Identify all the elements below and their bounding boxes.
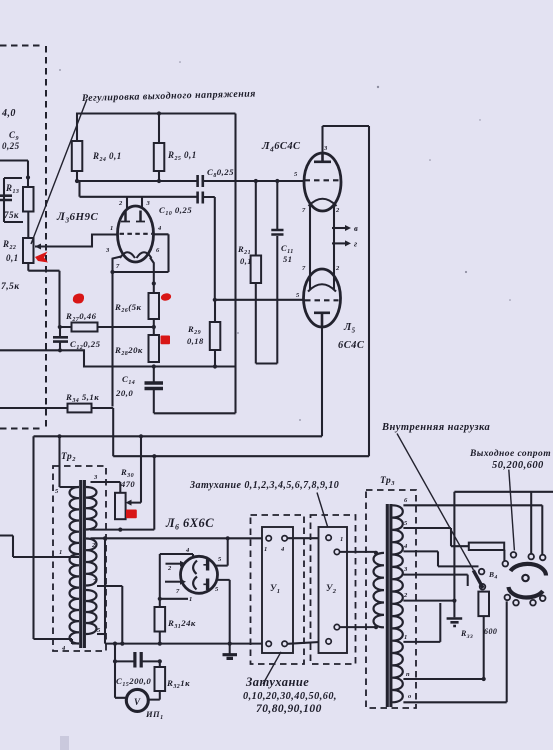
wire Tr2 section B bottom tap (pin 7) xyxy=(97,586,122,644)
meter IP1 xyxy=(126,689,148,711)
capacitor C15 plates (electrolytic 200,0) xyxy=(135,652,141,668)
wire L6 right bottom lead to ground bus xyxy=(217,580,230,644)
svg-text:0,18: 0,18 xyxy=(187,336,204,346)
resistor R34 body (horizontal 5,1k) xyxy=(68,404,92,413)
svg-text:2: 2 xyxy=(167,565,172,572)
resistor R28 body xyxy=(149,335,160,362)
svg-text:5: 5 xyxy=(215,586,219,593)
resistor internal load body xyxy=(469,543,504,550)
svg-text:R25 0,1: R25 0,1 xyxy=(167,150,197,162)
tube L6 envelope xyxy=(181,556,218,593)
svg-text:5: 5 xyxy=(218,556,222,563)
svg-text:Затухание 0,1,2,3,4,5,6,7,8,9,: Затухание 0,1,2,3,4,5,6,7,8,9,10 xyxy=(189,480,339,491)
terminal U2 mid-right top xyxy=(334,549,339,554)
wire Tr2 primary mid tap, pin 1 xyxy=(0,536,79,558)
svg-text:R13: R13 xyxy=(5,183,19,195)
svg-text:в: в xyxy=(354,223,358,233)
terminal U1 top-left xyxy=(266,536,271,541)
terminal U1 top-right xyxy=(282,536,287,541)
wire under-tube horizontal xyxy=(113,271,169,273)
tube L5 grid dashed xyxy=(305,299,339,301)
svg-text:5: 5 xyxy=(97,627,101,634)
svg-text:20,0: 20,0 xyxy=(115,388,133,398)
resistor R31 24k xyxy=(159,599,161,644)
svg-text:3: 3 xyxy=(146,200,151,207)
wire Tr2 primary bottom, pin 4 xyxy=(72,642,79,644)
wire to switch contact xyxy=(530,492,532,554)
transformer Tr3 dashed enclosure xyxy=(366,490,416,708)
tube L5 envelope xyxy=(304,269,341,327)
svg-text:Выходное сопрот: Выходное сопрот xyxy=(469,448,551,459)
svg-text:7: 7 xyxy=(116,263,120,270)
svg-text:5: 5 xyxy=(296,292,300,299)
wire L6 plate box left side xyxy=(160,554,193,599)
wire Tr3 tap 1 xyxy=(403,603,440,642)
resistor R24 body xyxy=(72,141,83,171)
tube L3 cathode arcs xyxy=(120,252,152,258)
svg-text:Внутренняя нагрузка: Внутренняя нагрузка xyxy=(381,422,490,433)
junction node xyxy=(26,175,30,179)
wire Tr3 tap 3 xyxy=(403,575,467,586)
wire primary top feeder xyxy=(58,436,60,487)
svg-text:2: 2 xyxy=(335,207,340,214)
svg-text:1: 1 xyxy=(404,634,408,641)
svg-text:ИП1: ИП1 xyxy=(145,709,164,721)
red mark arrow at R22 xyxy=(35,252,48,263)
red mark at R30 xyxy=(126,510,137,519)
svg-text:3: 3 xyxy=(93,474,98,481)
wire U1 to U2 bottom xyxy=(287,642,326,644)
wire C12 bottom to ground bus xyxy=(59,342,61,350)
terminal U2 bottom-left xyxy=(326,639,331,644)
wire U1 to U2 top xyxy=(287,537,326,539)
svg-text:5: 5 xyxy=(294,171,298,178)
unit U1 box xyxy=(262,527,293,653)
resistor R26 body xyxy=(149,293,160,319)
svg-text:C14: C14 xyxy=(122,374,135,386)
wire Tr2 sec top lead pin 3 to R30 xyxy=(91,482,121,493)
svg-text:70,80,90,100: 70,80,90,100 xyxy=(256,703,322,715)
svg-text:R33: R33 xyxy=(460,629,473,640)
svg-text:6: 6 xyxy=(404,497,408,504)
svg-text:7,5к: 7,5к xyxy=(1,282,20,292)
svg-text:4,0: 4,0 xyxy=(1,108,16,119)
wire R22 bottom to R23 node xyxy=(28,263,59,327)
svg-text:3: 3 xyxy=(403,566,408,573)
wire L4 anode to top cap and right rail xyxy=(323,126,370,456)
resistor body (R13) xyxy=(23,187,34,212)
svg-text:R29: R29 xyxy=(187,324,201,336)
svg-text:1: 1 xyxy=(340,536,344,543)
wire 5,1k resistor line xyxy=(0,407,113,409)
svg-text:R24 0,1: R24 0,1 xyxy=(92,151,122,163)
wire R13 to R22 xyxy=(27,212,29,239)
wire Tr3 tap 2 xyxy=(403,600,454,602)
capacitor C12 plates xyxy=(59,327,61,337)
wire meter left branch with C15 xyxy=(115,644,160,698)
tube L5 anode bar xyxy=(314,313,330,327)
svg-text:7: 7 xyxy=(302,265,306,272)
svg-text:3: 3 xyxy=(105,247,110,254)
capacitor C14 (electrolytic) xyxy=(153,367,155,383)
wire right rail x235 (from top box down) xyxy=(234,114,236,414)
svg-text:600: 600 xyxy=(484,627,497,636)
wire dashed vertical feedback line xyxy=(45,46,47,428)
wire L5 anode down to feedback line xyxy=(321,327,323,436)
svg-text:50,200,600: 50,200,600 xyxy=(492,460,544,471)
wire L3 pin4 lead xyxy=(154,234,169,272)
wire drop to long line y456 xyxy=(113,408,369,456)
tube L4 grid dashed xyxy=(305,179,340,181)
svg-text:Л6 6Х6С: Л6 6Х6С xyxy=(165,516,214,532)
svg-text:0,25: 0,25 xyxy=(2,141,20,151)
svg-text:4: 4 xyxy=(185,547,190,554)
red mark at R28 xyxy=(161,336,171,345)
resistor R32 1k xyxy=(148,661,160,699)
wire R24/R25 bottoms to bus xyxy=(77,171,159,181)
tube L3 anode plates xyxy=(126,210,141,221)
terminal U1 bottom-right xyxy=(282,641,287,646)
wire L3 cathode to R26 xyxy=(150,258,154,294)
svg-text:7: 7 xyxy=(93,578,97,585)
wire R26 to R28 node xyxy=(153,319,155,335)
svg-text:0,1: 0,1 xyxy=(6,253,19,263)
svg-text:Л46С4С: Л46С4С xyxy=(261,140,301,154)
unit U2 dashed enclosure xyxy=(311,515,356,664)
wire filament connections L4-L5 xyxy=(310,206,334,289)
wiper of R30 up to feedback line xyxy=(132,436,142,502)
svg-text:R21: R21 xyxy=(237,244,251,256)
paper specks xyxy=(59,61,511,421)
svg-text:C120,25: C120,25 xyxy=(70,339,101,351)
resistor R27 body (horizontal) xyxy=(72,323,98,332)
svg-text:1: 1 xyxy=(59,549,63,556)
wire Tr3 tap 5 xyxy=(403,528,504,561)
tube L6 cathode arcs xyxy=(193,561,197,590)
leader internal load xyxy=(397,434,474,571)
wire Tr2 tap to U1 (pin 2) xyxy=(91,537,267,539)
capacitor C11 plates xyxy=(276,181,278,229)
svg-text:R26(5к: R26(5к xyxy=(114,302,141,314)
svg-text:R321к: R321к xyxy=(166,678,190,690)
svg-text:7: 7 xyxy=(302,207,306,214)
wire L5 cathode feedback line y436 xyxy=(34,435,323,437)
rotary switch V4 rotor arcs xyxy=(511,564,547,576)
filament supply tick g xyxy=(332,242,345,244)
svg-text:4: 4 xyxy=(403,543,408,550)
transformer Tr2 core xyxy=(81,480,85,648)
transformer Tr2 secondary winding section C xyxy=(86,590,97,634)
svg-text:C10 0,25: C10 0,25 xyxy=(159,205,192,217)
wire L5 grid line xyxy=(215,299,304,301)
wire top box (output adj network) xyxy=(77,114,236,144)
resistor R21 body xyxy=(251,256,262,284)
svg-text:Л36Н9С: Л36Н9С xyxy=(56,211,98,225)
wire R21 branch xyxy=(256,181,277,364)
svg-text:5: 5 xyxy=(404,520,408,527)
tube L4 anode bar xyxy=(314,154,331,162)
transformer Tr3 secondary winding xyxy=(392,505,403,702)
ground symbol (main bus) xyxy=(229,644,231,654)
red mark at R26 xyxy=(160,292,172,301)
svg-text:Тр2: Тр2 xyxy=(61,452,76,463)
svg-text:470: 470 xyxy=(120,479,135,489)
svg-text:В4: В4 xyxy=(488,570,498,581)
transformer Tr3 core xyxy=(387,504,391,707)
unit U1 dashed enclosure xyxy=(251,515,305,664)
svg-text:R2820к: R2820к xyxy=(114,345,143,357)
resistor R25 body xyxy=(154,143,165,171)
terminal U2 mid-right bottom xyxy=(334,624,339,629)
tube L4 filament dome xyxy=(309,199,337,206)
wire U2 to Tr3 primary top xyxy=(340,551,377,553)
resistor R29 body xyxy=(214,300,216,367)
wire Tr3 tap o xyxy=(403,601,506,702)
rotary switch V4 contacts xyxy=(503,561,509,567)
wire bottom ground bus xyxy=(105,643,266,645)
svg-text:7: 7 xyxy=(176,588,180,595)
svg-text:2: 2 xyxy=(91,542,96,549)
wire U2 to Tr3 primary bottom xyxy=(340,626,377,628)
capacitor C8 plates xyxy=(198,175,203,187)
svg-text:R30: R30 xyxy=(120,467,134,479)
wire main grid bus y181 with C8 gap xyxy=(77,180,304,182)
red mark blob at R27 xyxy=(73,293,84,303)
unit U2 box xyxy=(319,527,348,653)
svg-text:R34 5,1к: R34 5,1к xyxy=(65,392,99,404)
tube L5 filament dome xyxy=(308,284,336,291)
svg-text:R3124к: R3124к xyxy=(167,618,196,630)
svg-text:1: 1 xyxy=(264,546,268,553)
wire R30 bottom lead xyxy=(90,456,154,529)
capacitor C10 plates xyxy=(198,192,203,204)
wire Tr2 left bus down xyxy=(104,538,106,643)
svg-text:2: 2 xyxy=(118,200,123,207)
rotary switch V4 pivot xyxy=(522,575,528,581)
wire Tr3 tap 4 xyxy=(403,551,478,566)
potentiometer R22 body xyxy=(23,238,34,263)
ground symbol near R33 xyxy=(453,601,455,618)
capacitor at left edge (plates) xyxy=(0,196,12,200)
transformer Tr2 dashed enclosure xyxy=(53,466,106,651)
svg-text:5: 5 xyxy=(55,488,59,495)
svg-text:4: 4 xyxy=(157,225,162,232)
wire left rail down to transformer bottom xyxy=(34,436,73,644)
wire Tr2 bottom tap (pin 5) xyxy=(97,633,105,635)
arrows into L6 (signal) xyxy=(166,563,181,565)
svg-text:1: 1 xyxy=(110,225,114,232)
leader to bottom attenuation label xyxy=(263,652,281,684)
transformer Tr2 secondary winding section A xyxy=(86,487,97,530)
tube L3 envelope xyxy=(118,206,154,262)
svg-text:г: г xyxy=(354,239,358,249)
svg-text:4: 4 xyxy=(61,645,66,652)
tube L3 grid (dashed) xyxy=(120,233,153,235)
wire Tr3 tap 6 xyxy=(403,505,542,554)
wire left cathode bus with jog xyxy=(0,350,236,366)
wire L3 top pins to anode line xyxy=(127,197,142,209)
svg-text:Регулировка выходного напряжен: Регулировка выходного напряжения xyxy=(82,88,256,104)
wire C9 to node xyxy=(0,161,28,189)
wire Tr2 primary top lead, pin 5 xyxy=(60,486,80,488)
resistor R30 body (470) xyxy=(115,493,126,519)
terminal U1 bottom-left xyxy=(266,641,271,646)
resistor R33 600 xyxy=(483,591,485,679)
wire dashed top-left horizontal xyxy=(0,45,43,47)
svg-text:Тр3: Тр3 xyxy=(380,476,395,487)
terminal U2 top-left xyxy=(326,535,331,540)
svg-text:R22: R22 xyxy=(2,239,16,251)
svg-text:1: 1 xyxy=(189,596,193,603)
svg-text:6: 6 xyxy=(156,247,160,254)
leader to U2 terminal xyxy=(317,493,330,535)
leader output impedance xyxy=(509,470,515,551)
tube L4 envelope xyxy=(304,153,341,211)
tube L6 diode plates xyxy=(206,559,209,590)
svg-text:2: 2 xyxy=(403,592,408,599)
wire C14 bottom jog xyxy=(154,389,236,413)
svg-text:75к: 75к xyxy=(4,210,19,220)
wire L6 right top lead (pin 5) xyxy=(216,538,228,565)
rotary switch V4 arm xyxy=(473,570,483,588)
svg-text:Л5: Л5 xyxy=(343,322,356,335)
filament supply tick v xyxy=(332,227,345,229)
svg-text:0,10,20,30,40,50,60,: 0,10,20,30,40,50,60, xyxy=(243,691,337,702)
wiper of R22 to grid of tube xyxy=(35,235,118,247)
svg-text:C80,25: C80,25 xyxy=(207,167,234,179)
leader line from adjustment label to R22 xyxy=(31,99,87,244)
svg-text:Затухание: Затухание xyxy=(245,675,309,689)
svg-text:3: 3 xyxy=(323,145,328,152)
wire anode line y197 with C10 gap xyxy=(80,181,215,300)
svg-text:о: о xyxy=(408,693,412,700)
svg-text:п: п xyxy=(406,671,410,678)
wire L3 left bottom lead down long rail xyxy=(113,257,122,407)
wire R27 line xyxy=(60,326,154,328)
wire dashed bottom-left horizontal xyxy=(0,428,41,430)
bottom-left smudge xyxy=(60,736,69,750)
svg-text:51: 51 xyxy=(283,254,292,264)
transformer Tr2 primary winding xyxy=(70,487,79,644)
transformer Tr2 secondary winding section B xyxy=(86,539,97,586)
wire Tr3 tap p xyxy=(403,678,484,680)
svg-text:4: 4 xyxy=(280,546,285,553)
svg-text:V: V xyxy=(134,697,141,707)
wire internal load box xyxy=(454,492,553,601)
resistor R13 box outline xyxy=(4,178,23,222)
svg-text:C15200,0: C15200,0 xyxy=(116,676,151,688)
svg-text:R270,46: R270,46 xyxy=(65,311,97,323)
svg-text:6С4С: 6С4С xyxy=(338,340,365,351)
svg-text:0,1: 0,1 xyxy=(240,256,252,266)
transformer Tr3 primary winding xyxy=(374,553,385,627)
svg-text:2: 2 xyxy=(335,265,340,272)
